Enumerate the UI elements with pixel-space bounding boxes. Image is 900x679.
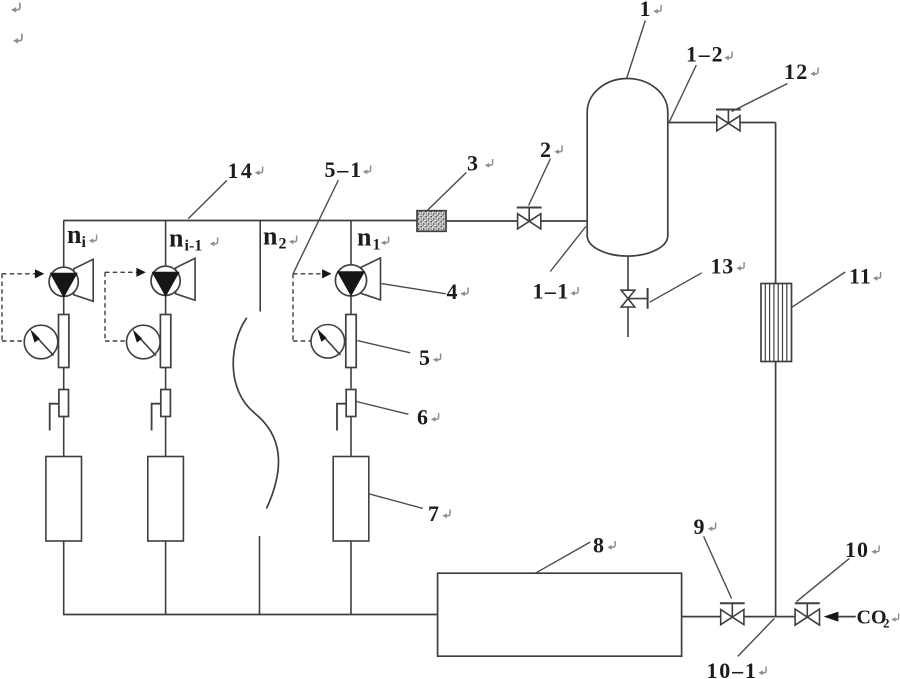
pressure gauge (branch n_1) (311, 325, 345, 359)
svg-text:3: 3 (467, 151, 478, 176)
dashed speed-control line 5-1 to pump 4 (293, 273, 323, 275)
wire: drain stub below valve 13 (627, 307, 629, 337)
wire: valve 12 to downpipe corner (740, 122, 776, 124)
vessel 1 (storage tank) (587, 79, 668, 257)
pressure gauge (branch n_i-1) (127, 325, 161, 359)
svg-text:n: n (263, 222, 278, 251)
label 2 with leader (529, 159, 551, 206)
svg-text:6: 6 (417, 405, 428, 430)
sensor 6 (branch n_i) (59, 390, 69, 417)
svg-text:n: n (169, 224, 184, 253)
label 1-1 with leader (550, 227, 586, 272)
svg-text:1: 1 (640, 0, 651, 21)
accumulator 7 (branch n_i) (46, 457, 82, 542)
svg-text:8: 8 (593, 533, 604, 558)
wire: vessel outlet 1-2 to valve 12 (668, 122, 717, 124)
wire: cooler 11 down to junction 10-1 (775, 362, 777, 617)
label 3 with leader (427, 173, 466, 211)
label 1 with leader (627, 21, 646, 79)
sensor (branch n_i-1) (161, 390, 171, 417)
svg-text:11: 11 (849, 264, 872, 289)
wire: branch n_2 drop (upper stub) (259, 221, 261, 312)
flow meter (branch n_i-1) (160, 315, 170, 368)
CO2 inlet arrow (824, 612, 839, 622)
svg-text:2: 2 (279, 236, 287, 253)
sensor 6 (branch n_1) (346, 390, 356, 417)
label 13 with leader (650, 273, 702, 302)
wire: branch n_i-1 drop (165, 221, 167, 267)
accumulator (branch n_i-1) (148, 457, 184, 542)
wire: box 8 outlet to valve 9 (682, 616, 721, 618)
svg-text:7: 7 (428, 501, 439, 526)
label 12 with leader (732, 84, 788, 112)
mixer box 8 (438, 573, 682, 656)
dashed speed-control line to pump P_i-1 (105, 271, 137, 273)
svg-text:i: i (82, 234, 87, 251)
label 4 with leader (382, 284, 446, 294)
label 1-2 with leader (669, 65, 696, 122)
wire: branch n_i drop (63, 221, 65, 268)
wire: suction header line 14 (63, 220, 417, 222)
flow meter 5 (branch n_i) (59, 315, 69, 368)
wire: branch n_2 drop (lower stub) (259, 536, 261, 615)
label 9 with leader (704, 536, 732, 598)
accumulator 7 (branch n_1) (333, 457, 369, 542)
label 6 with leader (356, 402, 408, 415)
pump P_i-1 (branch n_i-1) (176, 258, 196, 300)
cooler 11 (hatched heat exchanger) (761, 284, 792, 362)
valve 13 (drain valve) (628, 298, 648, 300)
svg-text:2: 2 (540, 137, 551, 162)
wire: header to filter outlet segment (446, 220, 518, 222)
pump 4 (branch n_1) (361, 258, 381, 300)
valve 12 (727, 110, 729, 124)
svg-text:5: 5 (419, 345, 430, 370)
svg-text:n: n (357, 223, 372, 252)
wire: valve 9 to valve 10 via junction 10-1 (744, 616, 795, 618)
flow meter 5 (branch n_1) (346, 315, 356, 368)
svg-text:CO: CO (857, 607, 887, 629)
wire: vessel bottom drain (627, 256, 629, 290)
svg-text:5–1: 5–1 (325, 157, 363, 182)
label 10-1 with leader (738, 619, 775, 657)
label 5 with leader (357, 341, 410, 353)
dashed speed-control line to pump P_i (2, 273, 36, 275)
svg-text:13: 13 (711, 254, 735, 279)
wire: downpipe to cooler 11 (775, 123, 777, 284)
wire: branch n_1 drop (350, 221, 352, 266)
pump P_i (branch n_i) (74, 259, 94, 301)
svg-text:14: 14 (228, 158, 255, 183)
svg-text:1–1: 1–1 (533, 279, 570, 304)
svg-text:12: 12 (784, 59, 808, 84)
filter 3 (417, 211, 446, 232)
pressure gauge (branch n_i) (24, 325, 58, 359)
wire: valve 2 to vessel inlet (541, 220, 588, 222)
valve 10 (806, 603, 808, 617)
break symbol on branch n_2 (233, 318, 278, 509)
label 14 with leader (188, 181, 227, 219)
label 7 with leader (370, 494, 423, 508)
label 5-1 with leader (293, 180, 338, 273)
svg-text:10: 10 (845, 537, 869, 562)
svg-text:1–2: 1–2 (686, 42, 724, 67)
label 11 with leader (792, 272, 846, 307)
label 10 with leader (797, 558, 850, 601)
svg-text:n: n (67, 220, 82, 249)
svg-text:10–1: 10–1 (707, 658, 758, 679)
label 8 with leader (535, 542, 590, 573)
wire: bottom return header (63, 614, 438, 616)
svg-text:4: 4 (447, 279, 458, 304)
svg-text:2: 2 (883, 616, 890, 631)
valve 2 (528, 208, 530, 222)
svg-text:1: 1 (373, 237, 381, 254)
svg-text:i‐1: i‐1 (185, 238, 203, 255)
svg-text:9: 9 (694, 514, 705, 539)
valve 9 (731, 603, 733, 617)
